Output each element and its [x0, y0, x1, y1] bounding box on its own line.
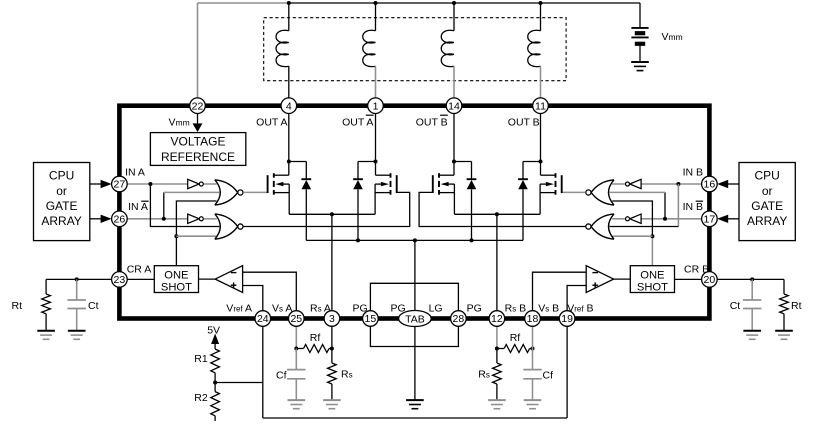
inductor winding 1 — [276, 30, 289, 66]
junction node Rf A left — [294, 347, 298, 351]
label Vmm pin22 — [169, 117, 190, 129]
supply arrow 5V — [211, 334, 219, 345]
junction node one-shot A feed — [174, 234, 178, 238]
wire source rail B — [454, 213, 540, 215]
wire coil 2 lower lead — [375, 66, 377, 98]
pin 11 — [533, 98, 549, 114]
junction node Rs A tap — [330, 212, 334, 216]
svg-text:3: 3 — [329, 313, 335, 325]
svg-text:IN B: IN B — [683, 167, 703, 179]
label Vs B — [538, 303, 559, 315]
wire IN A from pin27 — [127, 183, 188, 185]
block CPU/GATE ARRAY right — [739, 163, 795, 241]
block ONE SHOT B — [630, 266, 674, 294]
junction node Ct A — [75, 277, 79, 281]
svg-text:or: or — [56, 184, 67, 198]
label CR B — [684, 264, 709, 276]
svg-text:PG: PG — [353, 303, 368, 315]
inverter buffer A1 — [188, 179, 204, 188]
label Vs A — [272, 303, 292, 315]
svg-text:OUT B: OUT B — [508, 116, 540, 128]
svg-text:R2: R2 — [194, 392, 208, 404]
diode D1 — [301, 179, 311, 189]
IC package outline — [119, 106, 709, 319]
label PG tab left — [391, 303, 406, 315]
transistor Q2 — [375, 162, 397, 215]
svg-text:ONE: ONE — [640, 270, 664, 282]
junction node Q2 drain — [374, 160, 378, 164]
pin 4 — [281, 98, 297, 114]
svg-text:PG: PG — [467, 303, 482, 315]
wire buffer B2 to NOR B2 — [612, 218, 625, 220]
inverter buffer B1 — [626, 179, 642, 188]
svg-text:Vmm: Vmm — [169, 117, 190, 129]
capacitor Cf A — [287, 349, 305, 401]
ground Rs B — [488, 400, 506, 409]
diode D3 — [467, 179, 477, 189]
wire buffer B1 to NOR B1 — [612, 183, 625, 185]
svg-text:SHOT: SHOT — [161, 282, 192, 294]
wire Vmm rail (gray segment from pin 22) — [198, 3, 289, 98]
svg-text:24: 24 — [257, 313, 269, 325]
pin 17 — [702, 211, 718, 227]
wire comparator B minus to pin18 — [533, 272, 587, 311]
wire pin to Q3 drain — [453, 114, 455, 162]
svg-text:25: 25 — [290, 313, 302, 325]
ground Ct A — [68, 331, 86, 340]
wire IN B from pin16 — [641, 183, 702, 185]
svg-text:Ct: Ct — [730, 300, 741, 312]
inverter buffer B2 — [626, 214, 642, 223]
label Vref B — [567, 303, 593, 315]
label OUT A-bar — [342, 115, 374, 128]
label OUT B-bar — [416, 115, 448, 128]
svg-text:22: 22 — [192, 100, 204, 112]
ground Rs A — [323, 400, 341, 409]
wire pin to Q4 drain — [540, 114, 542, 162]
label PG 28 — [467, 303, 482, 315]
wire NOR A2 output to Q2 gate — [243, 192, 410, 226]
wire source rail A — [289, 213, 375, 215]
wire comparator A plus to pin24 — [243, 286, 263, 312]
label Rs B pin — [505, 303, 527, 315]
svg-text:CPU: CPU — [49, 169, 74, 183]
svg-text:Vs B: Vs B — [538, 303, 559, 315]
inductor winding 3 — [441, 30, 454, 66]
svg-text:PG: PG — [391, 303, 406, 315]
svg-text:SHOT: SHOT — [637, 282, 668, 294]
svg-text:REFERENCE: REFERENCE — [161, 150, 235, 164]
svg-text:Vmm: Vmm — [662, 31, 683, 43]
svg-text:Vref B: Vref B — [567, 303, 593, 315]
label Cf A — [276, 370, 287, 382]
ground battery — [631, 62, 649, 71]
label PG 15 — [353, 303, 368, 315]
pin 1 — [368, 98, 384, 114]
svg-text:LG: LG — [429, 303, 443, 315]
label OUT B — [508, 116, 540, 128]
svg-text:IN B: IN B — [683, 201, 703, 213]
pin 14 — [446, 98, 462, 114]
wire D3 anode — [471, 189, 473, 240]
pin TAB — [399, 311, 432, 327]
pin 20 — [702, 272, 718, 288]
pin 23 — [112, 272, 128, 288]
capacitor Ct A — [68, 279, 86, 330]
transistor Q3 — [433, 162, 455, 215]
wire one-shot B to NOR B1 input — [612, 201, 652, 266]
block CPU/GATE ARRAY left — [34, 163, 90, 241]
ground Cf A — [288, 400, 306, 409]
svg-text:12: 12 — [491, 313, 503, 325]
ground Rt A — [37, 331, 55, 340]
svg-text:or: or — [762, 184, 773, 198]
wire coil 3 lower lead — [453, 66, 455, 98]
wire CPU to pin17 arrow — [717, 215, 739, 223]
junction node OUT A rail — [287, 1, 291, 5]
junction node IN A-bar — [162, 217, 166, 221]
wire pin to Q1 drain — [288, 114, 290, 162]
label Rf B — [510, 332, 521, 344]
transistor Q4 — [540, 162, 562, 215]
junction node OUT B rail — [539, 1, 543, 5]
svg-text:15: 15 — [365, 313, 377, 325]
svg-text:18: 18 — [527, 313, 539, 325]
wire IN A to NOR A2 mid input — [150, 184, 219, 227]
junction node IN B — [676, 182, 680, 186]
junction node IN B-bar — [663, 217, 667, 221]
wire divider to Vref — [215, 382, 263, 384]
wire D4 anode — [522, 189, 524, 240]
wire TAB to ground — [414, 327, 416, 401]
wire buffer A2 to NOR A2 — [204, 218, 217, 220]
capacitor Cf B — [523, 349, 541, 401]
wire coil 1 lower lead — [288, 66, 290, 98]
pin 25 — [289, 311, 305, 327]
pin 28 — [451, 311, 467, 327]
wire Rs A tap to pin3 — [331, 214, 333, 311]
wire pin23 to one-shot A — [127, 278, 154, 280]
pin 19 — [559, 311, 575, 327]
pin 27 — [112, 176, 128, 192]
wire pin19 down — [566, 326, 568, 418]
diode D4 — [518, 179, 528, 189]
svg-text:26: 26 — [114, 213, 126, 225]
wire Q4 drain to D4 — [523, 162, 541, 180]
wire IN B to NOR B2 mid input — [610, 184, 679, 227]
wire Vref bottom rail — [263, 417, 567, 419]
wire diode ground rail — [306, 239, 523, 241]
wire IN B-bar from pin17 — [641, 218, 702, 220]
pin 18 — [525, 311, 541, 327]
wire pin25 down — [295, 326, 297, 348]
battery Vmm — [631, 28, 648, 62]
wire NOR B2 output to Q3 gate — [419, 192, 585, 226]
pin 26 — [112, 211, 128, 227]
diode D2 — [353, 179, 363, 189]
transistor Q1 — [268, 162, 290, 215]
resistor Rs A — [328, 349, 337, 401]
junction node D3 anode — [470, 238, 474, 242]
svg-text:4: 4 — [286, 100, 292, 112]
junction node Rf B right — [531, 347, 535, 351]
wire coil 3 upper lead — [453, 3, 455, 31]
inductor winding 2 — [363, 30, 376, 66]
TAB frame — [370, 283, 458, 346]
label Cf B — [543, 370, 554, 382]
wire Rs B tap to pin12 — [496, 214, 498, 311]
wire one-shot B to NOR B2 input — [613, 235, 653, 237]
wire pin23 to Rt/Ct — [46, 278, 112, 280]
svg-text:5V: 5V — [207, 325, 220, 337]
label IN B — [683, 167, 703, 179]
pin 15 — [363, 311, 379, 327]
wire IN A-bar from pin26 — [127, 218, 188, 220]
wire CPU to pin27 arrow — [90, 180, 112, 188]
svg-text:27: 27 — [114, 179, 126, 191]
svg-text:CPU: CPU — [755, 169, 780, 183]
op-amp comparator A — [199, 266, 243, 293]
label IN A-bar — [128, 201, 149, 213]
NOR gate A2 — [215, 214, 243, 239]
label R2 — [194, 392, 208, 404]
svg-text:ARRAY: ARRAY — [41, 214, 81, 228]
wire Q1 drain to D1 — [289, 162, 307, 180]
label R1 — [194, 353, 208, 365]
resistor Rt A — [42, 279, 51, 330]
svg-text:23: 23 — [114, 274, 126, 286]
junction node Rs B tap — [495, 212, 499, 216]
ground Rt B — [775, 331, 793, 340]
junction node Ct B — [750, 277, 754, 281]
junction node Q1 drain — [287, 160, 291, 164]
pin 22 — [190, 98, 206, 114]
label Rs B — [478, 369, 490, 381]
ground Ct B — [743, 331, 761, 340]
label Rt A — [12, 300, 23, 312]
op-amp comparator B — [586, 266, 630, 293]
wire IN A-bar to NOR A1 mid input — [164, 192, 220, 218]
resistor Rf A — [296, 345, 332, 353]
capacitor Ct B — [743, 279, 761, 330]
wire D2 anode — [357, 189, 359, 240]
resistor Rf B — [497, 345, 533, 353]
label 5V — [207, 325, 220, 337]
wire NOR B1 output to Q4 gate — [561, 191, 585, 193]
svg-text:CR A: CR A — [127, 264, 152, 276]
svg-text:Cf: Cf — [276, 370, 287, 382]
pin 12 — [489, 311, 505, 327]
label IN A — [125, 167, 145, 179]
svg-text:Rs A: Rs A — [310, 303, 331, 315]
wire comparator A minus to pin25 — [243, 272, 297, 311]
svg-text:OUT A: OUT A — [256, 116, 287, 128]
svg-text:TAB: TAB — [405, 313, 425, 325]
label Rt B — [791, 300, 802, 312]
resistor Rs B — [493, 349, 502, 401]
junction node IN A — [148, 182, 152, 186]
wire coil 1 upper lead — [288, 3, 290, 31]
label Rf A — [310, 332, 321, 344]
svg-text:Rt: Rt — [12, 300, 23, 312]
wire pin22 to voltage reference arrow — [193, 114, 203, 133]
label LG — [429, 303, 443, 315]
svg-text:1: 1 — [373, 100, 379, 112]
label IN B-bar — [683, 201, 704, 213]
wire buffer A1 to NOR A1 — [204, 183, 217, 185]
label Vref A — [226, 303, 252, 315]
wire pin24 down — [262, 326, 264, 418]
wire one-shot A to NOR A1 input — [176, 201, 216, 266]
wire pin18 down — [532, 326, 534, 348]
svg-text:OUT A: OUT A — [342, 116, 373, 128]
svg-text:IN A: IN A — [125, 167, 145, 179]
svg-text:19: 19 — [561, 313, 573, 325]
label Rs A — [341, 369, 353, 381]
pin 16 — [702, 176, 718, 192]
junction node Q3 drain — [452, 160, 456, 164]
junction node Q4 drain — [539, 160, 543, 164]
label Ct B — [730, 300, 741, 312]
wire coil 4 lower lead — [540, 66, 542, 98]
ground TAB — [406, 400, 424, 409]
svg-text:R1: R1 — [194, 353, 208, 365]
label OUT A — [256, 116, 287, 128]
wire pin3 down — [331, 326, 333, 348]
junction node one-shot B feed — [650, 234, 654, 238]
wire TAB rail to TAB — [414, 240, 416, 311]
svg-text:ARRAY: ARRAY — [747, 214, 787, 228]
svg-text:Vref A: Vref A — [226, 303, 252, 315]
svg-text:GATE: GATE — [46, 199, 78, 213]
junction node R1/R2 — [213, 381, 217, 385]
dashed box motor windings — [264, 18, 566, 81]
wire D1 anode — [305, 189, 307, 240]
svg-text:Rs: Rs — [341, 369, 353, 381]
wire pin20 to Ct/Rt — [717, 278, 784, 280]
svg-text:Vs A: Vs A — [272, 303, 292, 315]
wire one-shot A to NOR A2 input — [176, 235, 216, 237]
svg-text:VOLTAGE: VOLTAGE — [171, 134, 226, 148]
inverter buffer A2 — [188, 214, 204, 223]
junction node OUT B-bar rail — [452, 1, 456, 5]
wire IN B-bar to NOR B1 mid input — [610, 192, 666, 218]
pin 3 — [324, 311, 340, 327]
svg-text:Rt: Rt — [791, 300, 802, 312]
wire comparator B plus to pin19 — [567, 286, 586, 312]
svg-text:20: 20 — [704, 274, 716, 286]
pin 24 — [255, 311, 271, 327]
svg-text:17: 17 — [704, 213, 716, 225]
wire CPU to pin26 arrow — [90, 215, 112, 223]
wire pin20 to one-shot B — [675, 278, 702, 280]
junction node Rf A right — [330, 347, 334, 351]
svg-text:Rs: Rs — [478, 369, 490, 381]
svg-text:Rf: Rf — [510, 332, 521, 344]
wire coil 2 upper lead — [375, 3, 377, 31]
svg-text:ONE: ONE — [164, 270, 188, 282]
resistor R2 — [211, 383, 220, 422]
block ONE SHOT A — [154, 266, 198, 294]
svg-text:11: 11 — [535, 100, 546, 112]
svg-text:Ct: Ct — [88, 300, 99, 312]
wire NOR A1 output to Q1 gate — [243, 191, 267, 193]
junction node D2 anode — [356, 238, 360, 242]
junction node TAB rail — [413, 238, 417, 242]
inductor winding 4 — [528, 30, 541, 66]
svg-text:IN A: IN A — [128, 201, 148, 213]
ground Cf B — [524, 400, 542, 409]
label Ct A — [88, 300, 99, 312]
svg-text:GATE: GATE — [751, 199, 783, 213]
wire Q3 drain to D3 — [454, 162, 472, 180]
wire Vmm rail — [289, 3, 640, 28]
resistor R1 — [211, 344, 220, 383]
NOR gate A1 — [215, 180, 243, 205]
svg-text:Rf: Rf — [310, 332, 321, 344]
svg-text:28: 28 — [453, 313, 465, 325]
NOR gate B2 — [586, 214, 614, 239]
wire pin12 down — [496, 326, 498, 348]
svg-text:Cf: Cf — [543, 370, 554, 382]
wire pin to Q2 drain — [375, 114, 377, 162]
svg-text:14: 14 — [448, 100, 460, 112]
junction node Rf B left — [495, 347, 499, 351]
resistor Rt B — [780, 279, 789, 330]
wire CPU to pin16 arrow — [717, 180, 739, 188]
svg-text:Rs B: Rs B — [505, 303, 527, 315]
NOR gate B1 — [586, 180, 614, 205]
wire coil 4 upper lead — [540, 3, 542, 31]
label Rs A pin — [310, 303, 331, 315]
junction node OUT A-bar rail — [374, 1, 378, 5]
wire Q2 drain to D2 — [358, 162, 376, 180]
svg-text:OUT B: OUT B — [416, 116, 448, 128]
block VOLTAGE REFERENCE — [150, 133, 245, 166]
svg-text:16: 16 — [704, 179, 716, 191]
label Vmm battery — [662, 31, 683, 43]
label CR A — [127, 264, 152, 276]
